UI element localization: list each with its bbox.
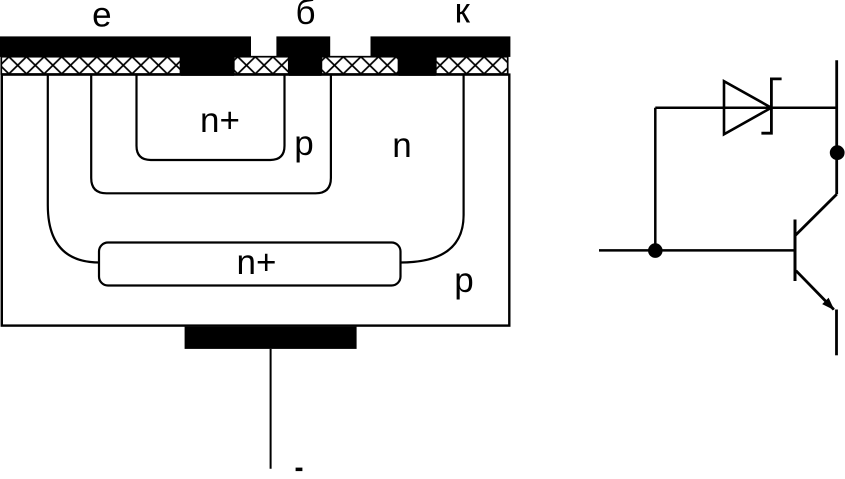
collector contact plug: [399, 56, 436, 75]
svg-text:е: е: [92, 0, 111, 35]
junction node base: [648, 243, 663, 258]
transistor VT1 base bar: [794, 220, 797, 282]
minus terminal label: [296, 468, 303, 472]
transistor VT1 emitter lead: [796, 271, 834, 310]
wire top horizontal: [655, 106, 836, 109]
isolation boundary left curve: [48, 75, 100, 263]
oxide hatch strip 4: [436, 57, 508, 74]
junction node collector: [830, 145, 845, 160]
diode VD1 triangle: [724, 81, 771, 134]
svg-text:к: к: [455, 0, 471, 31]
emitter contact plug: [181, 56, 235, 75]
svg-text:n+: n+: [237, 243, 277, 282]
oxide hatch strip 3: [321, 57, 398, 74]
wire emitter vertical: [835, 310, 838, 356]
base p region outline: [91, 75, 331, 194]
emitter n+ region outline: [137, 75, 285, 160]
svg-text:б: б: [295, 0, 315, 32]
epitaxy boundary right curve: [401, 75, 464, 263]
diode VD1 schottky cathode bar: [761, 79, 781, 133]
metal bar e: [0, 36, 251, 57]
svg-text:n: n: [392, 126, 411, 165]
svg-text:n+: n+: [200, 101, 240, 140]
svg-text:p: p: [294, 124, 313, 163]
wire base horizontal: [599, 249, 795, 252]
oxide hatch strip 2: [234, 57, 289, 74]
buried n+ layer: [99, 243, 401, 286]
oxide hatch strip 1: [1, 57, 180, 74]
substrate bottom contact: [185, 327, 357, 349]
svg-text:p: p: [454, 261, 473, 300]
base contact plug: [289, 56, 322, 75]
wire collector vertical: [835, 60, 838, 194]
substrate wire: [270, 349, 272, 469]
metal bar b: [276, 36, 330, 57]
metal bar k: [371, 36, 511, 57]
wire node to top: [654, 108, 657, 251]
transistor VT1 collector lead: [796, 194, 837, 235]
chip body box: [2, 75, 510, 326]
transistor VT1 emitter arrowhead: [822, 298, 834, 311]
